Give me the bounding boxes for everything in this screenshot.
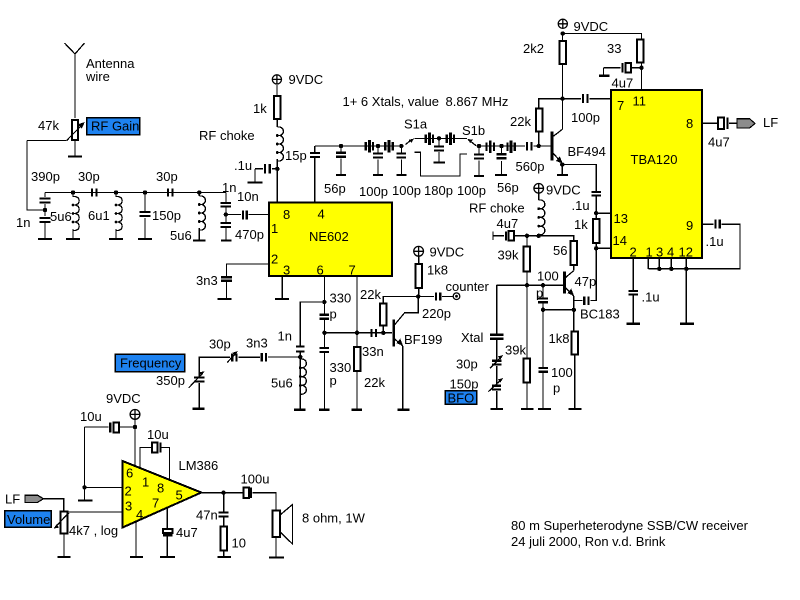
svg-text:5u6: 5u6 xyxy=(170,228,192,243)
svg-text:3n3: 3n3 xyxy=(196,273,218,288)
svg-text:30p: 30p xyxy=(78,169,100,184)
svg-text:4k7 , log: 4k7 , log xyxy=(69,523,118,538)
svg-text:S1b: S1b xyxy=(462,123,485,138)
svg-text:Volume: Volume xyxy=(7,512,50,527)
svg-text:7: 7 xyxy=(349,263,356,278)
svg-text:1n: 1n xyxy=(278,329,292,344)
svg-text:S1a: S1a xyxy=(404,117,428,132)
svg-text:9VDC: 9VDC xyxy=(574,19,609,34)
svg-text:BFO: BFO xyxy=(448,391,475,406)
svg-text:RF Gain: RF Gain xyxy=(91,119,139,134)
svg-text:390p: 390p xyxy=(31,169,60,184)
svg-text:Frequency: Frequency xyxy=(120,356,182,371)
svg-text:47p: 47p xyxy=(575,274,597,289)
svg-text:counter: counter xyxy=(446,279,490,294)
svg-text:100p: 100p xyxy=(392,183,421,198)
svg-text:2: 2 xyxy=(630,245,637,260)
svg-text:8: 8 xyxy=(157,481,164,496)
svg-text:3: 3 xyxy=(283,263,290,278)
svg-text:9: 9 xyxy=(686,218,693,233)
svg-text:8: 8 xyxy=(283,207,290,222)
svg-text:100: 100 xyxy=(551,365,573,380)
svg-text:22k: 22k xyxy=(510,114,531,129)
svg-text:p: p xyxy=(330,307,337,322)
svg-text:33n: 33n xyxy=(362,344,384,359)
svg-text:100u: 100u xyxy=(241,472,270,487)
svg-text:39k: 39k xyxy=(505,343,526,358)
svg-text:4u7: 4u7 xyxy=(612,76,634,91)
svg-text:LF: LF xyxy=(763,115,778,130)
svg-text:3: 3 xyxy=(125,499,132,514)
svg-text:30p: 30p xyxy=(209,337,231,352)
svg-text:BF494: BF494 xyxy=(568,144,606,159)
svg-text:7: 7 xyxy=(617,98,624,113)
svg-text:1k8: 1k8 xyxy=(427,263,448,278)
svg-text:NE602: NE602 xyxy=(309,229,349,244)
svg-text:10u: 10u xyxy=(80,409,102,424)
svg-text:2k2: 2k2 xyxy=(523,41,544,56)
svg-text:1: 1 xyxy=(646,245,653,260)
svg-text:5u6: 5u6 xyxy=(50,209,72,224)
svg-text:100: 100 xyxy=(537,269,559,284)
svg-text:1+ 6 Xtals, value: 1+ 6 Xtals, value xyxy=(343,94,439,109)
svg-text:1k8: 1k8 xyxy=(549,331,570,346)
svg-text:9VDC: 9VDC xyxy=(289,72,324,87)
svg-text:12: 12 xyxy=(679,245,693,260)
svg-text:4: 4 xyxy=(318,207,325,222)
svg-text:220p: 220p xyxy=(422,306,451,321)
svg-text:470p: 470p xyxy=(235,227,264,242)
svg-text:2: 2 xyxy=(271,252,278,267)
svg-text:8 ohm, 1W: 8 ohm, 1W xyxy=(302,511,366,526)
svg-text:56p: 56p xyxy=(324,181,346,196)
svg-text:6: 6 xyxy=(317,263,324,278)
svg-text:24 juli 2000, Ron v.d. Brink: 24 juli 2000, Ron v.d. Brink xyxy=(511,534,666,549)
svg-text:8.867 MHz: 8.867 MHz xyxy=(446,94,509,109)
svg-text:15p: 15p xyxy=(285,148,307,163)
svg-text:4u7: 4u7 xyxy=(176,525,198,540)
svg-text:350p: 350p xyxy=(156,373,185,388)
svg-text:330: 330 xyxy=(330,291,352,306)
svg-text:100p: 100p xyxy=(359,184,388,199)
svg-text:BC183: BC183 xyxy=(580,307,620,322)
svg-text:1: 1 xyxy=(271,221,278,236)
svg-text:9VDC: 9VDC xyxy=(430,245,465,260)
svg-text:33: 33 xyxy=(607,41,621,56)
svg-text:56p: 56p xyxy=(497,180,519,195)
svg-text:10n: 10n xyxy=(237,189,259,204)
svg-text:9VDC: 9VDC xyxy=(546,183,581,198)
svg-text:1: 1 xyxy=(142,475,149,490)
svg-text:100p: 100p xyxy=(457,183,486,198)
svg-text:100p: 100p xyxy=(571,110,600,125)
svg-text:6u1: 6u1 xyxy=(88,208,110,223)
svg-text:30p: 30p xyxy=(156,169,178,184)
svg-text:8: 8 xyxy=(686,116,693,131)
svg-text:150p: 150p xyxy=(152,208,181,223)
svg-text:TBA120: TBA120 xyxy=(631,152,678,167)
svg-text:3: 3 xyxy=(656,245,663,260)
svg-text:6: 6 xyxy=(126,466,133,481)
svg-text:11: 11 xyxy=(633,94,647,109)
svg-text:.1u: .1u xyxy=(706,234,724,249)
svg-text:RF choke: RF choke xyxy=(199,128,255,143)
svg-text:LM386: LM386 xyxy=(179,458,219,473)
svg-text:4u7: 4u7 xyxy=(497,216,519,231)
svg-text:.1u: .1u xyxy=(572,198,590,213)
svg-text:1n: 1n xyxy=(222,180,236,195)
svg-text:14: 14 xyxy=(613,233,627,248)
svg-text:180p: 180p xyxy=(424,183,453,198)
svg-text:10u: 10u xyxy=(147,427,169,442)
svg-text:3n3: 3n3 xyxy=(246,336,268,351)
svg-text:Xtal: Xtal xyxy=(461,330,484,345)
svg-text:1n: 1n xyxy=(16,215,30,230)
svg-text:30p: 30p xyxy=(456,357,478,372)
svg-text:9VDC: 9VDC xyxy=(106,391,141,406)
svg-text:4: 4 xyxy=(667,245,674,260)
svg-text:1k: 1k xyxy=(253,101,267,116)
svg-text:4u7: 4u7 xyxy=(708,135,730,150)
svg-text:150p: 150p xyxy=(450,377,479,392)
svg-text:80 m Superheterodyne SSB/CW re: 80 m Superheterodyne SSB/CW receiver xyxy=(511,518,749,533)
svg-text:5u6: 5u6 xyxy=(271,376,293,391)
svg-text:.1u: .1u xyxy=(234,158,252,173)
svg-text:.1u: .1u xyxy=(642,290,660,305)
svg-text:RF choke: RF choke xyxy=(469,201,525,216)
svg-text:560p: 560p xyxy=(516,159,545,174)
svg-text:13: 13 xyxy=(614,211,628,226)
svg-text:47n: 47n xyxy=(196,508,218,523)
svg-text:p: p xyxy=(536,286,543,301)
svg-text:7: 7 xyxy=(152,496,159,511)
svg-text:5: 5 xyxy=(176,488,183,503)
svg-text:LF: LF xyxy=(5,492,20,507)
svg-text:wire: wire xyxy=(85,69,110,84)
svg-text:1k: 1k xyxy=(574,217,588,232)
svg-text:BF199: BF199 xyxy=(404,332,442,347)
svg-text:2: 2 xyxy=(125,484,132,499)
svg-text:4: 4 xyxy=(136,507,143,522)
svg-text:39k: 39k xyxy=(498,248,519,263)
svg-text:47k: 47k xyxy=(38,118,59,133)
svg-text:56: 56 xyxy=(553,243,567,258)
svg-text:10: 10 xyxy=(232,536,246,551)
svg-text:22k: 22k xyxy=(360,287,381,302)
svg-text:p: p xyxy=(553,381,560,396)
svg-text:22k: 22k xyxy=(364,375,385,390)
svg-text:p: p xyxy=(330,373,337,388)
